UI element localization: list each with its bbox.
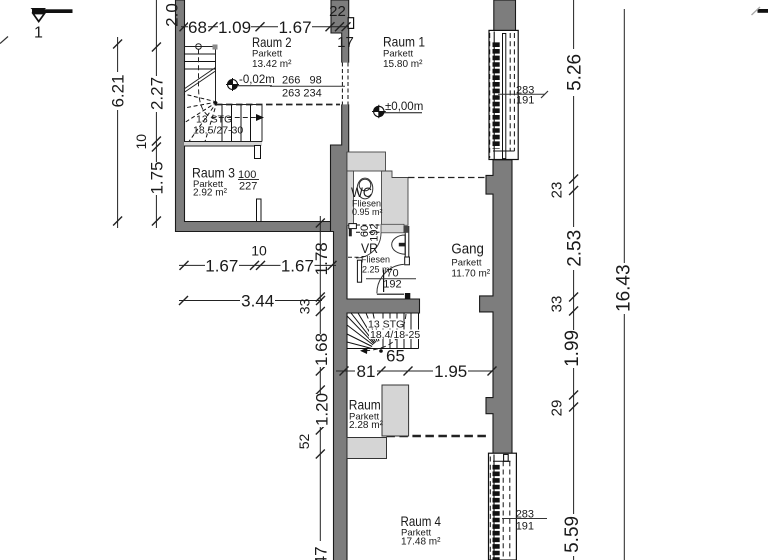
- svg-text:227: 227: [239, 181, 257, 193]
- svg-text:Parkett: Parkett: [451, 258, 481, 269]
- svg-text:23: 23: [548, 182, 565, 199]
- svg-text:2.25 m²: 2.25 m²: [362, 265, 393, 275]
- radiator VR: [357, 260, 361, 282]
- svg-text:29: 29: [548, 400, 565, 417]
- upper stair newel: [213, 45, 218, 50]
- annotation window upper 283/191: [498, 84, 548, 106]
- partition WC-VR wall segment: [381, 224, 404, 233]
- dashed line Raum1-Gang: [408, 177, 486, 179]
- svg-text:5.26: 5.26: [564, 54, 585, 91]
- svg-text:1.20: 1.20: [313, 393, 332, 426]
- dashed ceiling line upper: [216, 104, 340, 106]
- dim chain top: [180, 3, 354, 51]
- wall central column with stair top wall: [331, 0, 420, 560]
- svg-text:1.75: 1.75: [148, 161, 167, 194]
- svg-text:52: 52: [296, 434, 312, 450]
- label door 70/192: [366, 268, 416, 291]
- upper stair balustrade strip: [184, 142, 262, 147]
- svg-text:263 234: 263 234: [282, 88, 322, 100]
- svg-text:18,4/18-25: 18,4/18-25: [370, 329, 420, 341]
- svg-text:Fliesen: Fliesen: [361, 255, 390, 265]
- svg-text:81: 81: [357, 362, 376, 381]
- svg-text:5.59: 5.59: [562, 516, 583, 553]
- wall left exterior and bottom of upper block: [176, 0, 332, 232]
- gray block below Raum5: [347, 438, 387, 459]
- upper stair winder treads: [184, 94, 217, 142]
- upper stair walk start circle: [196, 44, 202, 50]
- room label Gang: [451, 241, 490, 280]
- VR right wall double line: [404, 226, 410, 265]
- door stop block: [405, 293, 410, 299]
- svg-text:1: 1: [34, 25, 43, 42]
- svg-text:1.67: 1.67: [281, 257, 314, 276]
- label door 192a: [368, 223, 380, 241]
- svg-text:1.95: 1.95: [434, 362, 467, 381]
- room label Raum 5: [349, 397, 384, 432]
- svg-text:0.95 m²: 0.95 m²: [352, 207, 383, 217]
- label stair lower: [367, 319, 420, 342]
- dim line 81/65/1.95: [336, 347, 497, 382]
- svg-text:Raum 1: Raum 1: [383, 34, 425, 50]
- lower stair: [347, 313, 419, 349]
- upper stair break line: [184, 68, 216, 93]
- door jamb post WC: [349, 224, 357, 237]
- window lower: [489, 453, 517, 560]
- room label WC: [351, 184, 383, 217]
- wall stub door100 lower: [257, 199, 262, 222]
- label door 60: [359, 225, 371, 237]
- leader line door 70/192: [383, 270, 385, 293]
- section symbol right edge: [752, 7, 768, 15]
- window upper: [489, 30, 518, 159]
- svg-text:17.48 m²: 17.48 m²: [401, 537, 441, 548]
- door WC swing arc: [356, 233, 381, 258]
- svg-text:1.99: 1.99: [562, 330, 583, 367]
- toilet WC: [357, 178, 373, 199]
- edge tick left: [0, 37, 8, 44]
- svg-text:1.68: 1.68: [312, 333, 331, 366]
- dim line 16.43: [612, 9, 635, 560]
- dim chain right: [548, 0, 585, 560]
- svg-text:10: 10: [251, 243, 267, 259]
- svg-text:17: 17: [337, 34, 354, 51]
- svg-text:Parkett: Parkett: [383, 49, 413, 60]
- svg-text:191: 191: [516, 95, 534, 107]
- svg-text:1.09: 1.09: [218, 18, 251, 37]
- dashed mark VR left: [348, 256, 362, 258]
- annotation window lower 283/191: [502, 509, 547, 533]
- svg-text:1.67: 1.67: [205, 257, 238, 276]
- dim chain center vertical: [296, 216, 332, 560]
- partition shaft right of WC: [382, 171, 409, 225]
- gray block beside Raum5: [382, 385, 409, 436]
- wall stub door100 upper: [255, 146, 261, 159]
- level marker -0,02m: [226, 74, 275, 91]
- wall right mid with stubs: [480, 160, 512, 454]
- room label Raum 1: [383, 34, 425, 71]
- lower stair walk arc: [360, 314, 406, 354]
- section symbol 1: [31, 8, 73, 42]
- svg-text:11.70 m²: 11.70 m²: [451, 269, 490, 280]
- svg-text:16.43: 16.43: [614, 264, 635, 312]
- door WC-VR dashed opening: [356, 225, 381, 232]
- level marker +0,00m: [372, 101, 423, 118]
- label stair upper: [193, 114, 243, 137]
- svg-text:13.42 m²: 13.42 m²: [252, 59, 292, 70]
- upper stair treads: [184, 54, 251, 142]
- partition WC left strip: [347, 171, 354, 225]
- svg-text:2.0: 2.0: [163, 3, 182, 27]
- dim chain mid horizontal 1.67/10/1.67: [179, 243, 337, 276]
- upper stair walk line: [199, 49, 265, 121]
- dim line 3.44: [179, 292, 325, 311]
- svg-text:266 98: 266 98: [282, 75, 322, 87]
- room label Raum 2: [252, 34, 292, 70]
- dashed line Gang-Raum4: [386, 435, 490, 437]
- svg-text:Parkett: Parkett: [252, 49, 282, 60]
- svg-text:192: 192: [383, 279, 401, 291]
- room label Raum 4: [401, 513, 442, 548]
- svg-text:1.47: 1.47: [312, 546, 331, 560]
- annotation 266 98 / 263 234: [270, 75, 345, 100]
- svg-text:6.21: 6.21: [109, 74, 128, 107]
- svg-text:191: 191: [516, 521, 534, 533]
- svg-text:33: 33: [548, 296, 565, 313]
- svg-text:18.5/27-30: 18.5/27-30: [193, 125, 243, 137]
- svg-text:22: 22: [329, 3, 346, 20]
- room label VR: [361, 240, 393, 275]
- svg-text:65: 65: [386, 347, 405, 366]
- dim chain left B: [133, 0, 182, 228]
- svg-text:Raum: Raum: [349, 397, 381, 413]
- svg-text:2.53: 2.53: [564, 230, 585, 267]
- dim line 6.21: [109, 37, 128, 228]
- svg-text:3.44: 3.44: [241, 292, 274, 311]
- room label Raum 3: [192, 165, 235, 199]
- partition WC top band: [347, 152, 386, 171]
- svg-text:192: 192: [368, 223, 380, 241]
- svg-text:2.28 m²: 2.28 m²: [349, 420, 384, 431]
- VR door swing arc: [377, 264, 404, 294]
- svg-text:-0,02m: -0,02m: [239, 74, 275, 86]
- wall right upper: [494, 0, 516, 31]
- svg-text:±0,00m: ±0,00m: [385, 101, 423, 113]
- small rect top wall: [348, 18, 353, 29]
- svg-text:68: 68: [188, 18, 207, 37]
- annotation door 100/227: [238, 169, 259, 193]
- svg-text:15.80 m²: 15.80 m²: [383, 59, 423, 70]
- svg-text:Gang: Gang: [451, 241, 484, 258]
- door opening Raum2-Raum1 dashed: [341, 63, 350, 105]
- svg-text:1.67: 1.67: [278, 18, 311, 37]
- svg-text:2.92 m²: 2.92 m²: [193, 188, 228, 199]
- upper stair outline: [184, 47, 262, 142]
- svg-text:1.78: 1.78: [312, 242, 331, 275]
- svg-text:33: 33: [297, 298, 313, 314]
- washbasin VR: [392, 235, 406, 254]
- svg-text:2.27: 2.27: [148, 77, 167, 110]
- svg-text:10: 10: [133, 134, 149, 150]
